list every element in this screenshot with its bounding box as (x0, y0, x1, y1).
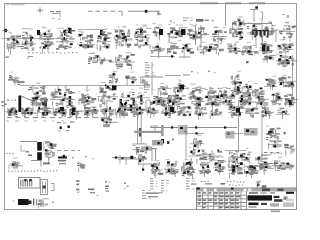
cathode bus wire (20, 85, 150, 87)
winding dots (255, 36, 257, 38)
coupling network C6 (259, 41, 274, 57)
dashed grid wire (88, 10, 118, 12)
dropper marks (101, 116, 112, 124)
grid bus B (78, 29, 106, 31)
PT secondary text (44, 141, 57, 162)
ground bold dash (43, 163, 50, 165)
riser wires (145, 100, 147, 112)
coupling network C7 (277, 40, 294, 55)
choke top dots (60, 127, 62, 129)
wire segment (165, 75, 181, 77)
right rail wire (292, 55, 294, 100)
grid wire V1 (261, 20, 263, 45)
speaker jack cluster (188, 147, 222, 164)
screen label cluster (232, 16, 245, 29)
bus stub d (65, 86, 67, 92)
winding taps (255, 36, 257, 48)
bias divider RD12 (177, 106, 192, 116)
resistor-capacitor stage R10 (167, 24, 187, 42)
junction (246, 61, 249, 63)
electrolytic E4 (120, 99, 122, 106)
triode V2 (160, 87, 166, 93)
resistor-capacitor stage R15 (262, 21, 279, 35)
vertical bus wire (151, 62, 153, 95)
gain stage Q2 (50, 85, 75, 108)
left stub mark (6, 57, 10, 58)
cathode network RC2 (208, 95, 221, 110)
resistor-capacitor stage R5 (77, 31, 95, 49)
resistor-capacitor stage R7 (114, 26, 132, 49)
note dots (201, 181, 209, 182)
feedback arrow wire (262, 163, 278, 165)
frame top dark segment a (200, 2, 218, 4)
dot mark (52, 202, 54, 203)
dotted legend row (8, 170, 57, 172)
bias divider RD15 (228, 106, 245, 118)
net label dash (183, 75, 190, 76)
resistor-capacitor stage R11 (187, 24, 209, 40)
choke cluster (118, 101, 136, 117)
bus wire B+ (140, 76, 163, 78)
corner tick (28, 57, 33, 60)
coupling network C3 (197, 42, 224, 56)
value labels row (6, 117, 98, 122)
ground lug dots (6, 153, 14, 155)
electrolytic E2 (44, 98, 46, 106)
B+ bus bar (134, 131, 163, 133)
filter bar F1 (152, 140, 163, 146)
node dot (284, 132, 286, 134)
terminal dots row (28, 52, 77, 54)
bias divider RD11 (161, 106, 176, 118)
bleeder bar (161, 125, 164, 136)
bold junction J5 (140, 29, 143, 34)
bias divider RD13 (194, 107, 208, 119)
edge resistor (1, 101, 4, 103)
dashed heater bus (158, 87, 232, 89)
module hatch windings (21, 179, 32, 187)
impedance box (226, 131, 235, 139)
gain stage Q10 (218, 87, 230, 103)
dots row G2 (229, 184, 243, 186)
cathode network RC4 (238, 94, 256, 109)
OT primary wire (240, 23, 272, 25)
bias divider RD1 (5, 107, 19, 117)
drawing number tab (271, 211, 280, 213)
dots row E (271, 153, 282, 154)
power amp PA10 (285, 163, 295, 171)
resistor-capacitor stage R12 (212, 26, 227, 43)
relay wire (186, 133, 204, 135)
speaker sel vertical (275, 30, 277, 42)
cathode network RC1 (192, 96, 205, 109)
resistor-capacitor stage R9 (152, 23, 163, 40)
OT feed vertical (238, 118, 240, 152)
resistor-capacitor stage R4 (56, 27, 75, 50)
HT vertical (261, 110, 263, 158)
bus stub e (86, 86, 88, 93)
bias divider RD3 (37, 106, 52, 116)
arrow tap (103, 124, 110, 127)
bold junction J1 (37, 30, 40, 35)
electrolytic E6 (140, 97, 142, 105)
connector row CN1 (77, 162, 86, 172)
gain stage Q5 (120, 88, 150, 108)
resistor-capacitor stage R14 (247, 23, 261, 40)
cab wiring dashes (88, 189, 94, 191)
power amp PA8 (258, 158, 274, 175)
mains dashed wire (57, 150, 80, 152)
fuse tube V8 (46, 151, 53, 158)
electrolytic E3 (69, 96, 72, 106)
junction dot (146, 147, 148, 149)
mains dot (63, 155, 65, 157)
standby switch (250, 9, 258, 11)
dots row G1 (227, 181, 244, 183)
frame title dashes (7, 4, 10, 5)
screen resistor R22 (262, 52, 276, 63)
cathode network RC7 (284, 94, 298, 106)
heater wire run (118, 158, 147, 160)
dashed speaker wire (264, 152, 281, 154)
bus stub a (32, 86, 34, 93)
tiny dash (13, 201, 15, 202)
output bold pair (262, 45, 265, 51)
connector marks CN2 (76, 180, 80, 182)
bias test point (8, 72, 18, 83)
gain stage Q15 (278, 75, 291, 88)
long bottom wire (146, 192, 163, 194)
bias divider RD4 (53, 107, 67, 117)
doubler cap (141, 147, 152, 151)
plate wire top (128, 10, 160, 12)
bold M junction (181, 29, 186, 35)
cathode bold (180, 85, 185, 90)
electrolytic E5 (133, 98, 135, 106)
resistor-capacitor stage R3 (39, 27, 54, 54)
bias divider RD10 (146, 107, 159, 117)
coupling network C5 (241, 42, 259, 55)
bold marks mid (161, 139, 164, 144)
heater label text (183, 18, 193, 22)
NFB network (230, 83, 242, 95)
grid bus A (2, 38, 75, 40)
junction dots row (118, 109, 120, 111)
frame top dark segment c (249, 2, 265, 4)
tone cap mid (125, 72, 137, 86)
notes column 2 (161, 180, 169, 191)
bias divider RD5 (69, 106, 82, 119)
notes column 3 (186, 178, 195, 189)
grid stopper R31 (286, 81, 297, 88)
rectifier cluster (132, 143, 149, 155)
notes column 1 (150, 178, 158, 189)
bold junction J4 (122, 33, 125, 39)
power amp PA4 (198, 159, 211, 178)
frame top dark segment b (225, 2, 241, 4)
schematic notes text (142, 190, 151, 199)
dark junction row D (60, 107, 64, 111)
tremolo cluster (268, 140, 282, 149)
screen grid row (150, 96, 166, 106)
sag resistor (150, 125, 159, 127)
gain stage Q4 (97, 82, 118, 108)
footswitch jack (8, 158, 23, 170)
dot marks r1 (191, 71, 193, 72)
speaker terminals (33, 199, 34, 206)
power amp PA5 (213, 157, 226, 175)
dark plate mark (112, 86, 116, 91)
title text rows (249, 192, 295, 208)
revision grid (197, 192, 247, 210)
coupling caps mid (109, 71, 119, 84)
coupling network C2 (167, 40, 194, 58)
lamp marks (138, 154, 147, 165)
coupling network C1 (150, 43, 165, 58)
long HT wire (150, 127, 237, 129)
output net cluster (228, 148, 251, 162)
power amp PA2 (165, 159, 179, 177)
cathode bar (139, 128, 141, 137)
power amp PA3 (181, 159, 196, 179)
diagonal wire (21, 96, 40, 104)
gain stage Q3 (78, 90, 96, 107)
bias divider RD17 (261, 107, 274, 119)
jack vertical pair (151, 149, 153, 161)
heater wire run 2 (138, 163, 152, 165)
PT feed wire (20, 141, 37, 143)
bias divider RD14 (210, 109, 222, 119)
rail jog (132, 143, 147, 145)
phase inverter tail (166, 95, 179, 107)
cathode network RC3 (222, 94, 235, 107)
electrolytic C30 (18, 96, 21, 113)
bold K junction (159, 29, 163, 35)
grid leak R24 (14, 78, 25, 85)
gain stage Q6 (158, 83, 173, 108)
gain stage Q14 (264, 76, 277, 91)
terminal dots (7, 100, 9, 101)
tube envelope lines (195, 25, 197, 45)
power amp PA1 (150, 160, 163, 178)
snubber (190, 135, 204, 151)
bias divider RD18 (276, 108, 290, 119)
bracket mark (51, 184, 54, 191)
bias divider RD8 (115, 108, 128, 118)
input pad group (50, 11, 54, 12)
resistor-capacitor stage R8 (134, 24, 152, 48)
output tube V6 cluster (276, 52, 298, 67)
gain stage Q11 (230, 71, 242, 89)
resistor-capacitor stage R16 (279, 22, 296, 40)
divider cluster (266, 126, 281, 140)
bias divider RD2 (21, 107, 37, 117)
marks G3 (256, 181, 267, 189)
wire stub (179, 57, 190, 58)
plate supply column (145, 62, 155, 76)
bus stub c (57, 86, 59, 93)
relay box K1 (178, 125, 188, 135)
resistor-capacitor stage R2 (21, 28, 36, 51)
legend bracket (31, 161, 41, 167)
right edge cluster (284, 144, 295, 157)
pilot dots B (124, 183, 126, 185)
cap body C31 (33, 101, 38, 106)
notes underline (146, 193, 159, 195)
bias divider RD7 (100, 107, 115, 119)
OT winding row (253, 31, 268, 36)
secondary coil (41, 180, 48, 195)
vertical feed (185, 125, 187, 160)
HT wire upper (225, 133, 243, 135)
PT primary wires (137, 112, 139, 144)
speaker blob (18, 199, 29, 205)
HT wire lower (225, 150, 247, 152)
power transformer T1 (37, 142, 42, 151)
ground legend bold (58, 157, 67, 159)
bus stub b (43, 86, 45, 92)
bold junction J2 (68, 28, 72, 33)
input jack crosshair (37, 9, 43, 11)
bias box (244, 128, 258, 136)
heater run (112, 157, 136, 159)
wire corner (118, 11, 122, 16)
resistor-capacitor stage R6 (97, 28, 112, 51)
comma marks (170, 21, 172, 22)
PT left bracket (21, 145, 26, 151)
cathode network RC6 (270, 93, 283, 105)
power entry module (19, 178, 41, 189)
gain stage Q13 (252, 83, 265, 101)
resistor-capacitor stage R1 (7, 32, 21, 55)
bias divider RD9 (130, 107, 145, 117)
parts list column (144, 84, 154, 93)
cathode network RC5 (255, 96, 269, 109)
resistor-capacitor stage R13 (229, 25, 244, 40)
B+ riser (225, 4, 227, 26)
bias divider RD16 (245, 107, 259, 117)
feedback wire (75, 110, 98, 112)
legend dots (72, 157, 74, 158)
gain stage Q7 (173, 80, 186, 111)
title block outline (197, 188, 297, 210)
trem cap mid (140, 76, 150, 89)
resistor R20 (88, 53, 115, 65)
bright cap C9 (282, 14, 285, 15)
wire plate (150, 56, 175, 58)
pilot dots A (105, 181, 107, 183)
power amp PA7 (244, 162, 260, 178)
power amp PA9 (272, 157, 286, 171)
coupling network C4 (227, 42, 241, 54)
OT vertical (236, 152, 238, 162)
manufacturer logo (248, 195, 288, 202)
bold junction J3 (100, 30, 103, 35)
note dashes above (191, 184, 197, 185)
gain stage Q1 (28, 83, 48, 112)
gain stage Q12 (242, 81, 252, 97)
bias divider RD6 (84, 107, 99, 118)
power amp PA6 (228, 159, 243, 179)
presence pot (255, 154, 272, 164)
capacitor C12 (115, 52, 135, 69)
frame fold mark (5, 29, 7, 32)
gain stage Q8 (188, 84, 203, 109)
gain stage Q9 (204, 87, 216, 107)
border frame (5, 4, 297, 210)
electrolytic E1 (32, 97, 34, 106)
